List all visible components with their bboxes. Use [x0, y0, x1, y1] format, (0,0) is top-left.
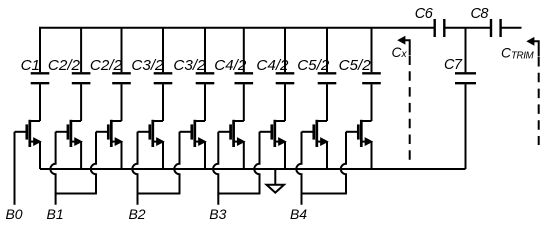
capacitor C1 (branch 1) [21, 57, 50, 83]
capacitor C5/2 (branch 8) [297, 57, 336, 83]
svg-text:C8: C8 [470, 6, 488, 22]
wire [243, 28, 245, 73]
transistor Q1 [15, 120, 41, 147]
wire B4 tie [301, 193, 347, 195]
wire [501, 27, 522, 29]
capacitor C4/2 (branch 6) [214, 57, 253, 83]
svg-text:B3: B3 [209, 206, 226, 222]
wire [204, 142, 206, 169]
transistor Q3 [96, 120, 122, 147]
svg-text:B1: B1 [47, 206, 64, 222]
capacitor C6 [415, 6, 445, 37]
wire [371, 84, 373, 121]
svg-text:C7: C7 [444, 57, 463, 73]
transistor Q7 [260, 120, 286, 147]
node B4 [290, 206, 307, 222]
capacitor C5/2 (branch 9) [339, 57, 381, 83]
svg-text:C2/2: C2/2 [48, 57, 81, 74]
wire [465, 84, 467, 169]
wire B1 left gate (hop over rail) [50, 132, 55, 205]
capacitor C8 [470, 6, 500, 37]
capacitor C2/2 (branch 2) [48, 57, 90, 83]
svg-text:C5/2: C5/2 [297, 57, 330, 74]
wire [243, 142, 245, 169]
wire B4 left gate (hop over rail) [296, 132, 301, 205]
wire [162, 142, 164, 169]
wire [326, 84, 328, 121]
wire B1 right gate (hop over rail) [91, 132, 96, 194]
svg-text:C1: C1 [21, 57, 40, 74]
wire [204, 28, 206, 73]
node Cx dashed line [409, 56, 411, 161]
wire B0 gate [14, 132, 16, 205]
wire [39, 142, 41, 169]
wire [284, 84, 286, 121]
node CTRIM label [501, 46, 535, 62]
capacitor C2/2 (branch 3) [90, 57, 131, 83]
transistor Q6 [218, 120, 244, 147]
svg-text:B4: B4 [290, 206, 307, 222]
transistor Q2 [56, 120, 82, 147]
svg-text:C4/2: C4/2 [256, 57, 289, 74]
svg-text:C3/2: C3/2 [173, 57, 206, 74]
wire B2 tie [137, 193, 181, 195]
svg-text:C4/2: C4/2 [214, 57, 247, 74]
wire B1 tie [55, 193, 97, 195]
transistor Q8 [302, 120, 328, 147]
capacitor C3/2 (branch 4) [131, 57, 172, 83]
wire [39, 84, 41, 121]
wire [371, 142, 373, 169]
wire [80, 84, 82, 121]
transistor Q4 [138, 120, 164, 147]
capacitor C3/2 (branch 5) [173, 57, 214, 83]
wire source rail [40, 168, 466, 170]
svg-text:CTRIM: CTRIM [501, 46, 535, 62]
wire B2 right gate (hop over rail) [174, 132, 179, 194]
wire [80, 28, 82, 73]
wire B3 right gate (hop over rail) [254, 132, 259, 194]
capacitor C7 [444, 57, 476, 83]
transistor Q5 [180, 120, 206, 147]
node B0 [5, 206, 22, 222]
node CTRIM dashed line [538, 57, 540, 145]
node B3 [209, 206, 226, 222]
capacitor C4/2 (branch 7) [256, 57, 294, 83]
node CTRIM arrow [527, 38, 538, 57]
svg-text:B2: B2 [128, 206, 145, 222]
ground [267, 169, 284, 193]
wire [284, 142, 286, 169]
node B1 [47, 206, 64, 222]
node Cx label [392, 45, 408, 60]
wire [326, 28, 328, 73]
wire [121, 142, 123, 169]
wire B3 tie [217, 193, 260, 195]
wire [444, 27, 491, 29]
svg-text:C5/2: C5/2 [339, 57, 372, 74]
wire [121, 84, 123, 121]
svg-text:C3/2: C3/2 [131, 57, 164, 74]
node B2 [128, 206, 145, 222]
svg-text:B0: B0 [5, 206, 22, 222]
wire B2 left gate (hop over rail) [132, 132, 137, 205]
node Cx arrow [398, 37, 409, 55]
transistor Q9 [346, 120, 372, 147]
wire top-plate bus [40, 28, 435, 73]
svg-text:C2/2: C2/2 [90, 57, 123, 74]
wire [162, 28, 164, 73]
wire B4 right gate (hop over rail) [341, 132, 346, 194]
wire [326, 142, 328, 169]
svg-text:Cx: Cx [392, 45, 408, 60]
wire B3 left gate (hop over rail) [213, 132, 218, 205]
wire [80, 142, 82, 169]
wire [162, 84, 164, 121]
wire [465, 28, 467, 73]
wire [204, 84, 206, 121]
wire [371, 28, 373, 73]
wire [284, 28, 286, 73]
wire [243, 84, 245, 121]
svg-text:C6: C6 [415, 6, 434, 22]
wire [121, 28, 123, 73]
